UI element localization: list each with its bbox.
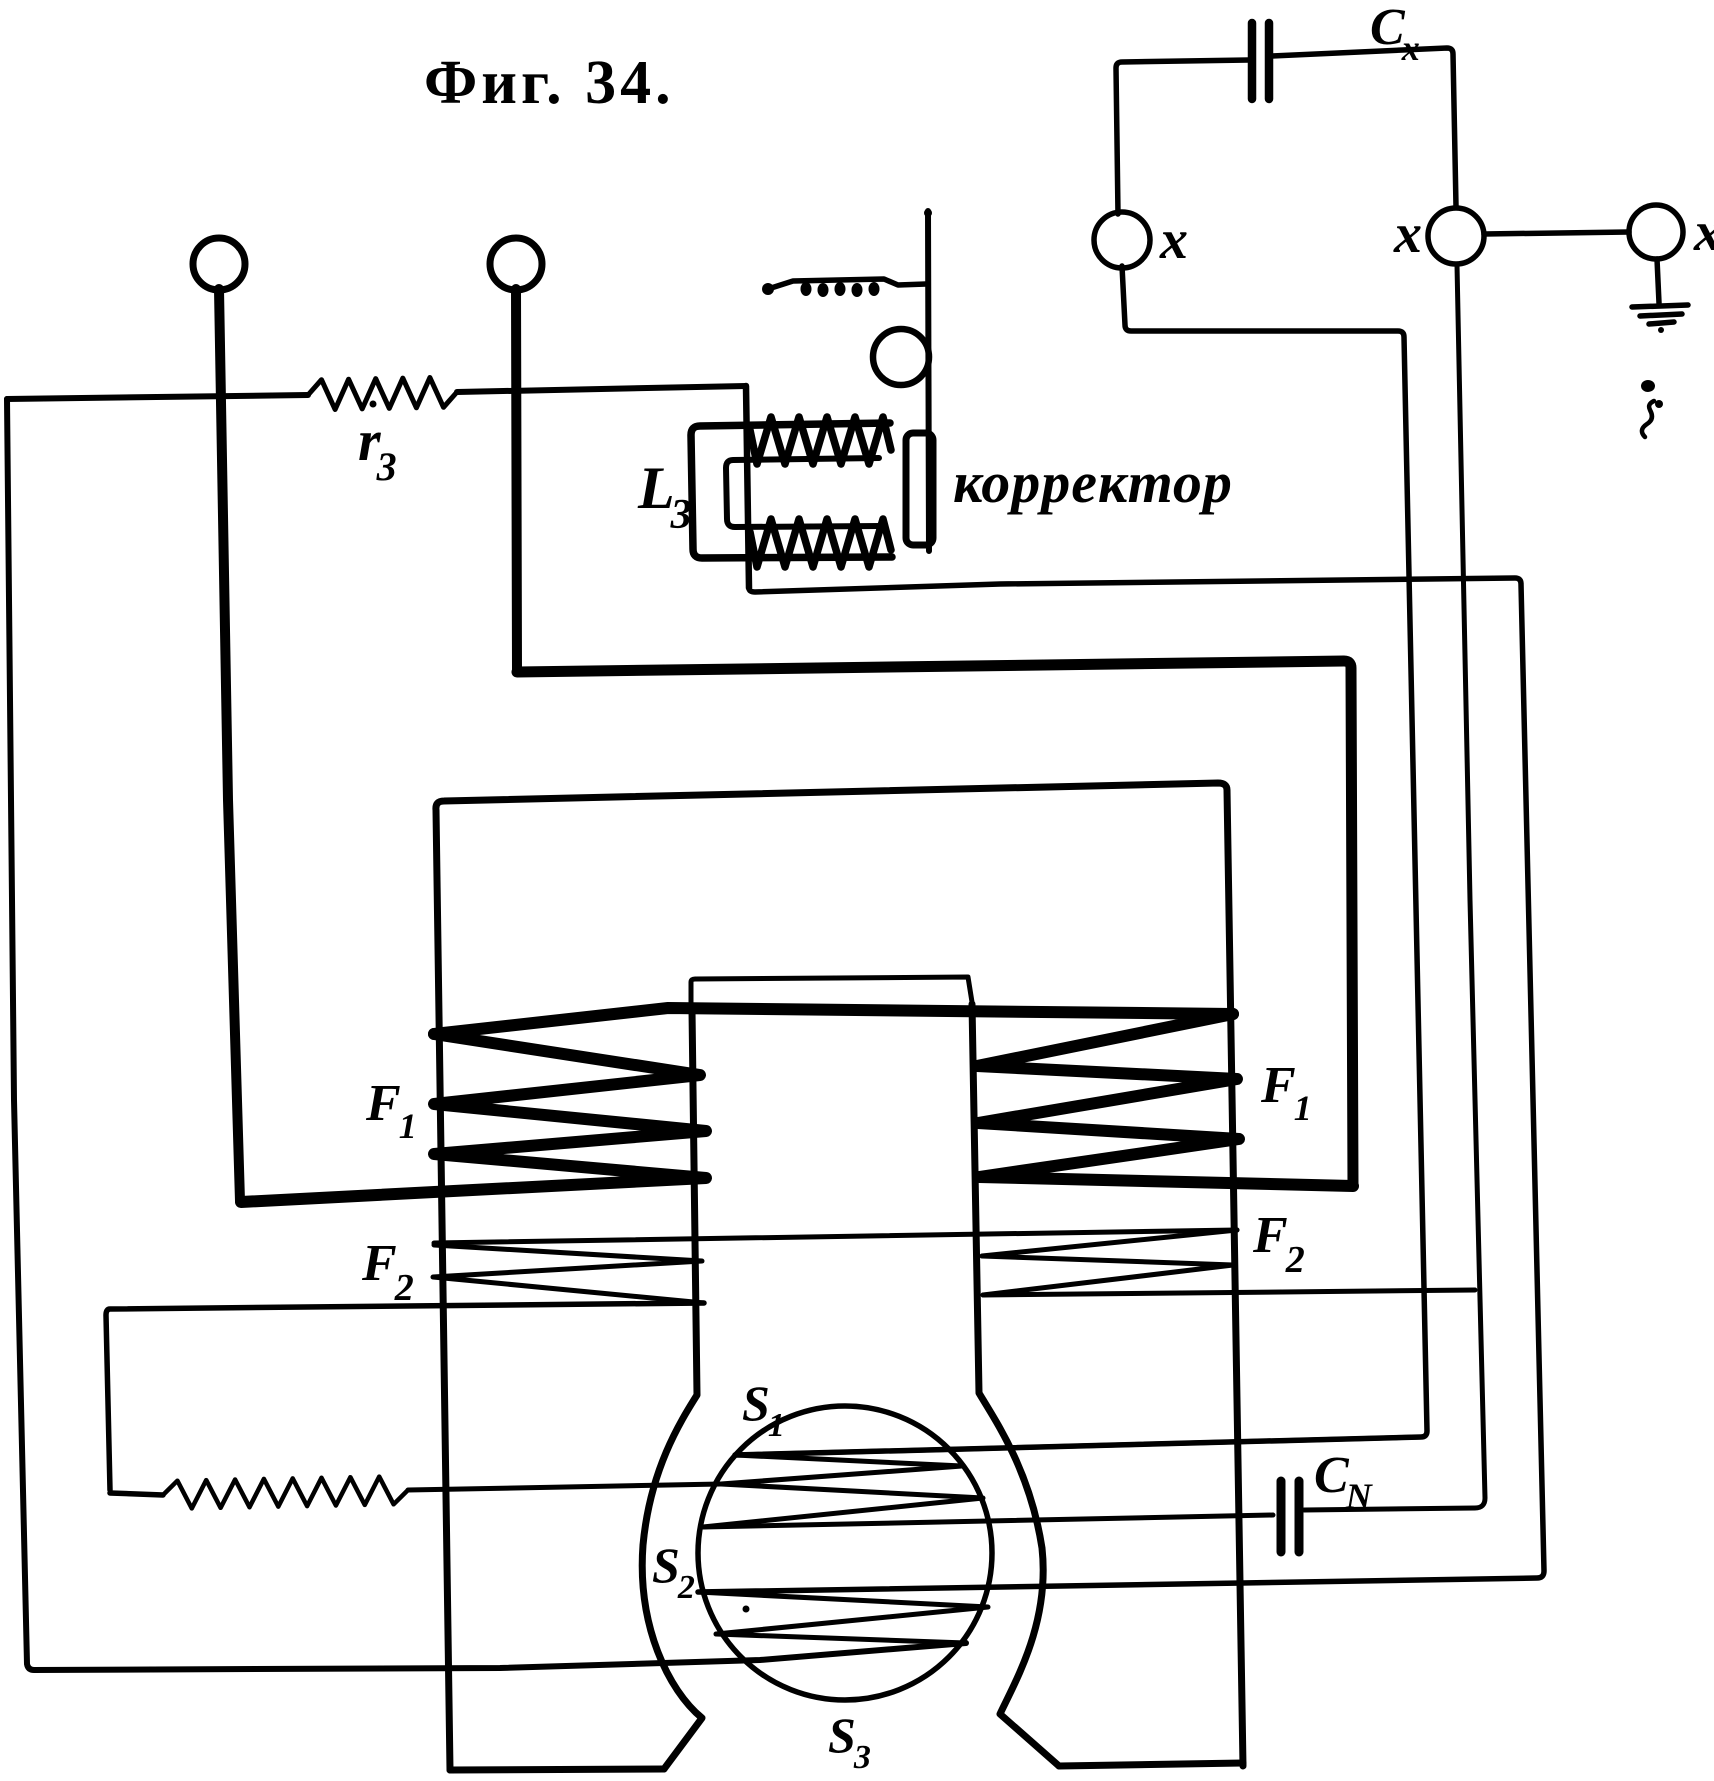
svg-text:r3: r3	[358, 408, 397, 489]
svg-text:F1: F1	[365, 1075, 417, 1146]
svg-text:x: x	[1693, 201, 1714, 263]
svg-text:F2: F2	[361, 1235, 414, 1309]
svg-text:корректор: корректор	[953, 450, 1233, 515]
svg-text:Фиг. 34.: Фиг. 34.	[424, 49, 675, 117]
svg-text:Cx: Cx	[1370, 0, 1420, 68]
svg-text:F2: F2	[1252, 1207, 1305, 1281]
svg-text:S3: S3	[828, 1707, 871, 1776]
svg-text:CN: CN	[1314, 1447, 1374, 1516]
svg-text:F1: F1	[1260, 1057, 1312, 1128]
svg-text:x: x	[1159, 209, 1188, 271]
svg-text:S2: S2	[652, 1537, 695, 1606]
svg-text:L3: L3	[637, 455, 692, 538]
svg-text:x: x	[1393, 203, 1422, 265]
